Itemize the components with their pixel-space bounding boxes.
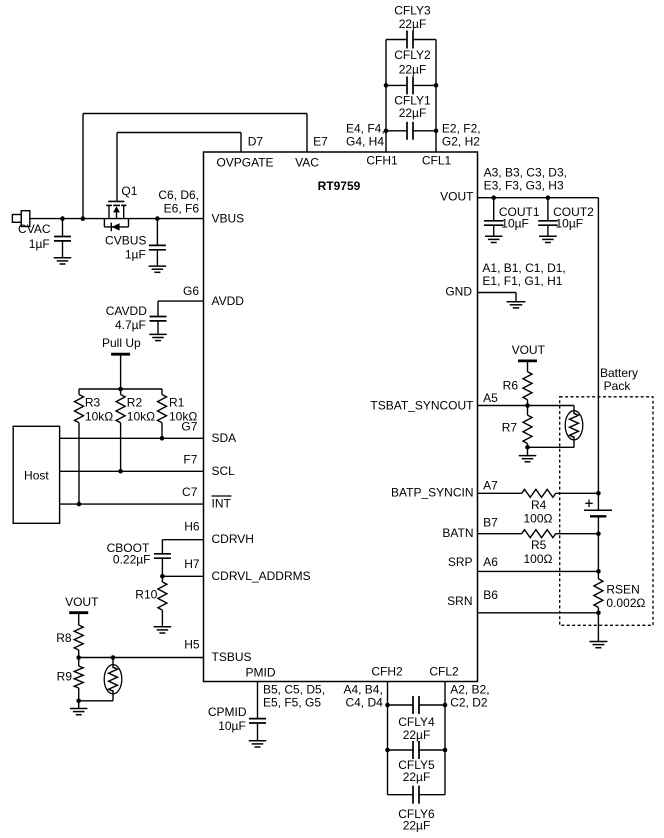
svg-text:B7: B7 bbox=[483, 516, 498, 530]
svg-text:22µF: 22µF bbox=[399, 17, 427, 31]
ground below GND pin bbox=[507, 302, 526, 308]
capacitor CFLY4 bbox=[388, 696, 446, 742]
pin number B6 bbox=[483, 588, 498, 602]
svg-text:CVAC: CVAC bbox=[18, 222, 51, 236]
pin number A3 B3 C3 D3 E3 F3 G3 H3 bbox=[484, 166, 567, 193]
node BATN bus junction bbox=[596, 531, 601, 536]
svg-text:E7: E7 bbox=[313, 135, 328, 149]
wire PMID bbox=[257, 682, 259, 719]
pin number C7 bbox=[182, 485, 198, 499]
svg-text:4.7µF: 4.7µF bbox=[115, 318, 146, 332]
pin label CFH2 bbox=[371, 665, 403, 679]
svg-text:CDRVH: CDRVH bbox=[212, 532, 254, 546]
svg-text:D7: D7 bbox=[248, 135, 264, 149]
pin label VOUT bbox=[440, 190, 474, 204]
svg-text:C2, D2: C2, D2 bbox=[450, 696, 488, 710]
svg-text:VAC: VAC bbox=[295, 156, 319, 170]
node CFLY4 junctions bbox=[385, 703, 447, 708]
svg-text:CFLY3: CFLY3 bbox=[394, 4, 431, 18]
connector VAC input plug bbox=[12, 211, 29, 227]
svg-text:PMID: PMID bbox=[246, 666, 276, 680]
pin number A1 B1 C1 D1 E1 F1 G1 H1 bbox=[482, 261, 565, 288]
capacitor COUT1 bbox=[484, 198, 540, 237]
capacitor CFLY5 bbox=[388, 741, 446, 784]
ground below R7 bbox=[519, 456, 537, 462]
svg-text:CAVDD: CAVDD bbox=[106, 304, 147, 318]
svg-text:10µF: 10µF bbox=[556, 216, 584, 230]
svg-text:1µF: 1µF bbox=[29, 237, 50, 251]
svg-text:A3, B3, C3, D3,: A3, B3, C3, D3, bbox=[484, 166, 567, 180]
pin label TSBAT_SYNCOUT bbox=[370, 398, 474, 412]
wire Q1 gate to OVPGATE (inner) bbox=[117, 133, 241, 201]
svg-text:B6: B6 bbox=[483, 588, 498, 602]
svg-text:BATP_SYNCIN: BATP_SYNCIN bbox=[391, 486, 473, 500]
capacitor COUT2 bbox=[538, 198, 594, 237]
resistor R1 bbox=[158, 389, 198, 438]
svg-text:OVPGATE: OVPGATE bbox=[216, 156, 273, 170]
svg-text:C4, D4: C4, D4 bbox=[345, 696, 383, 710]
svg-text:10kΩ: 10kΩ bbox=[85, 409, 113, 423]
node CVAC junction bbox=[60, 216, 65, 221]
resistor R3 bbox=[75, 389, 114, 504]
capacitor CVBUS bbox=[105, 219, 166, 267]
svg-text:10kΩ: 10kΩ bbox=[127, 409, 155, 423]
svg-text:GND: GND bbox=[445, 285, 472, 299]
capacitor CAVDD bbox=[106, 304, 167, 335]
pin label CDRVL_ADDRMS bbox=[212, 569, 311, 583]
wire CDRVH bbox=[162, 540, 203, 554]
svg-text:SDA: SDA bbox=[212, 431, 237, 445]
ground below CAVDD bbox=[149, 334, 167, 340]
resistor R10 bbox=[135, 576, 167, 627]
wire CFL2 rail bbox=[444, 682, 446, 795]
node CFLY1 junctions bbox=[384, 129, 439, 134]
capacitor CVAC bbox=[18, 219, 71, 258]
pin number G6 bbox=[183, 284, 199, 298]
svg-text:R5: R5 bbox=[531, 538, 547, 552]
svg-text:CFL2: CFL2 bbox=[429, 665, 459, 679]
wire BATN with resistor R5 bbox=[478, 530, 599, 566]
svg-text:R9: R9 bbox=[57, 670, 73, 684]
wire SDA bbox=[60, 436, 204, 441]
svg-text:22µF: 22µF bbox=[399, 63, 427, 77]
svg-text:RT9759: RT9759 bbox=[318, 179, 361, 193]
host block bbox=[13, 426, 59, 523]
svg-text:100Ω: 100Ω bbox=[524, 512, 553, 526]
pin label GND bbox=[445, 285, 472, 299]
svg-text:C6, D6,: C6, D6, bbox=[158, 188, 199, 202]
pin number E4 F4 G4 H4 bbox=[346, 121, 385, 148]
wire VBUS to VAC (outer) bbox=[83, 114, 307, 219]
svg-text:Host: Host bbox=[24, 469, 49, 483]
svg-text:R7: R7 bbox=[502, 421, 518, 435]
ground below CPMID bbox=[249, 741, 267, 747]
node CFLY5 junctions bbox=[385, 748, 447, 753]
pin label TSBUS bbox=[212, 650, 252, 664]
wire VOUT rail bbox=[478, 195, 599, 200]
wire battery bus lower bbox=[597, 516, 599, 571]
svg-text:VOUT: VOUT bbox=[512, 343, 546, 357]
pin label SRP bbox=[448, 555, 473, 569]
svg-text:R4: R4 bbox=[531, 498, 547, 512]
svg-text:H5: H5 bbox=[184, 638, 200, 652]
svg-text:E5, F5, G5: E5, F5, G5 bbox=[263, 696, 321, 710]
svg-text:R2: R2 bbox=[127, 396, 143, 410]
pin label SCL bbox=[212, 464, 236, 478]
svg-text:TSBAT_SYNCOUT: TSBAT_SYNCOUT bbox=[370, 398, 474, 412]
pin number H5 bbox=[184, 638, 200, 652]
svg-text:R8: R8 bbox=[56, 631, 72, 645]
node VAC junction bbox=[81, 216, 86, 221]
node SRN bus junction bbox=[596, 611, 601, 616]
svg-text:BATN: BATN bbox=[442, 526, 473, 540]
wire INT bbox=[60, 502, 204, 507]
svg-text:A4, B4,: A4, B4, bbox=[343, 683, 382, 697]
svg-text:INT: INT bbox=[212, 497, 232, 511]
svg-text:H6: H6 bbox=[184, 520, 200, 534]
battery pack boundary bbox=[560, 366, 653, 625]
capacitor CFLY2 bbox=[386, 48, 436, 94]
pin label CDRVH bbox=[212, 532, 254, 546]
svg-text:R1: R1 bbox=[169, 396, 185, 410]
svg-text:E4, F4,: E4, F4, bbox=[346, 121, 385, 135]
svg-text:A2, B2,: A2, B2, bbox=[450, 683, 489, 697]
svg-text:22µF: 22µF bbox=[403, 728, 431, 742]
svg-text:F7: F7 bbox=[183, 452, 197, 466]
node R7 bottom junction bbox=[525, 445, 530, 450]
capacitor CFLY6 bbox=[388, 786, 446, 833]
svg-text:0.22µF: 0.22µF bbox=[113, 553, 151, 567]
resistor R8 bbox=[56, 625, 83, 658]
svg-text:CFH1: CFH1 bbox=[366, 154, 398, 168]
thermistor TH1 bbox=[76, 658, 121, 704]
svg-text:E1, F1, G1, H1: E1, F1, G1, H1 bbox=[482, 274, 562, 288]
svg-text:G2, H2: G2, H2 bbox=[442, 134, 480, 148]
svg-text:SRN: SRN bbox=[447, 594, 472, 608]
svg-text:A1, B1, C1, D1,: A1, B1, C1, D1, bbox=[482, 261, 565, 275]
capacitor CFLY3 bbox=[386, 4, 436, 49]
svg-text:G4, H4: G4, H4 bbox=[346, 134, 384, 148]
svg-text:A7: A7 bbox=[483, 479, 498, 493]
svg-text:10µF: 10µF bbox=[501, 216, 529, 230]
pin number F7 bbox=[183, 452, 197, 466]
ground below COUT2 bbox=[539, 236, 557, 242]
capacitor CPMID bbox=[208, 705, 266, 741]
svg-text:1µF: 1µF bbox=[125, 247, 146, 261]
pin label VBUS bbox=[212, 212, 245, 226]
node VOUT supply right bbox=[512, 343, 546, 372]
resistor R9 bbox=[57, 658, 84, 701]
wire CDRVL_ADDRMS bbox=[160, 574, 203, 579]
pin number A5 bbox=[483, 391, 498, 405]
pin label SRN bbox=[447, 594, 472, 608]
resistor RSEN bbox=[594, 571, 646, 612]
svg-text:10µF: 10µF bbox=[218, 719, 246, 733]
wire SCL bbox=[60, 469, 204, 474]
wire bus to ground bbox=[597, 613, 599, 642]
svg-text:100Ω: 100Ω bbox=[524, 552, 553, 566]
node A7 bus junction bbox=[596, 491, 601, 496]
ground below battery bus bbox=[589, 642, 607, 648]
wire TSBUS bbox=[76, 655, 203, 660]
wire battery bus upper bbox=[597, 198, 599, 511]
node CVBUS junction bbox=[155, 216, 160, 221]
svg-text:Q1: Q1 bbox=[121, 184, 137, 198]
wire AVDD bbox=[158, 301, 204, 316]
wire R7 ground stem bbox=[527, 447, 529, 455]
wire CFL1 rail bbox=[435, 40, 437, 153]
svg-text:CVBUS: CVBUS bbox=[105, 234, 146, 248]
wire R9 ground stem bbox=[78, 701, 80, 709]
svg-text:Pull Up: Pull Up bbox=[102, 336, 141, 350]
node SRP bus junction bbox=[596, 569, 601, 574]
svg-text:22µF: 22µF bbox=[403, 770, 431, 784]
svg-text:SCL: SCL bbox=[212, 464, 236, 478]
pin label BATP_SYNCIN bbox=[391, 486, 473, 500]
node VOUT supply left bbox=[65, 595, 99, 625]
svg-text:10kΩ: 10kΩ bbox=[169, 409, 197, 423]
wire CFH1 rail bbox=[385, 40, 387, 153]
svg-text:R3: R3 bbox=[85, 396, 101, 410]
svg-text:Pack: Pack bbox=[604, 379, 632, 393]
pin number E7 bbox=[313, 135, 328, 149]
svg-text:CDRVL_ADDRMS: CDRVL_ADDRMS bbox=[212, 569, 311, 583]
svg-text:H7: H7 bbox=[184, 557, 200, 571]
svg-text:Battery: Battery bbox=[600, 366, 638, 380]
wire BATP_SYNCIN with resistor R4 bbox=[478, 489, 599, 525]
pin number H6 bbox=[184, 520, 200, 534]
svg-text:A6: A6 bbox=[483, 555, 498, 569]
node Pull Up supply bbox=[102, 336, 141, 389]
svg-text:CFH2: CFH2 bbox=[371, 665, 403, 679]
pin number H7 bbox=[184, 557, 200, 571]
svg-text:VOUT: VOUT bbox=[65, 595, 99, 609]
svg-text:R10: R10 bbox=[135, 588, 157, 602]
op-amp U1 RT9759 chip body bbox=[204, 152, 478, 682]
svg-text:AVDD: AVDD bbox=[212, 294, 245, 308]
pin label PMID bbox=[246, 666, 276, 680]
ground below CVAC bbox=[54, 258, 72, 264]
svg-text:22µF: 22µF bbox=[403, 819, 431, 833]
transistor Q1 bbox=[104, 184, 137, 231]
resistor R6 bbox=[503, 372, 532, 406]
pin label CFL1 bbox=[422, 154, 452, 168]
svg-text:RSEN: RSEN bbox=[606, 583, 639, 597]
pin label SDA bbox=[212, 431, 237, 445]
svg-text:B5, C5, D5,: B5, C5, D5, bbox=[263, 683, 325, 697]
resistor R2 bbox=[116, 389, 155, 471]
pin label BATN bbox=[442, 526, 473, 540]
wire TSBAT_SYNCOUT bbox=[478, 403, 530, 408]
pin number A2 B2 C2 D2 bbox=[450, 683, 489, 710]
svg-text:CFL1: CFL1 bbox=[422, 154, 452, 168]
svg-text:0.002Ω: 0.002Ω bbox=[606, 596, 645, 610]
svg-text:SRP: SRP bbox=[448, 555, 473, 569]
node CFLY2 junctions bbox=[384, 83, 439, 88]
wire SRN bbox=[478, 612, 599, 614]
battery BT1 bbox=[584, 500, 612, 517]
pin number A7 bbox=[483, 479, 498, 493]
svg-text:C7: C7 bbox=[182, 485, 198, 499]
pin label AVDD bbox=[212, 294, 245, 308]
pin number D7 bbox=[248, 135, 264, 149]
capacitor CFLY1 bbox=[386, 94, 436, 140]
wire GND bbox=[478, 293, 517, 302]
pin number A6 bbox=[483, 555, 498, 569]
svg-text:A5: A5 bbox=[483, 391, 498, 405]
wire CFH2 rail bbox=[387, 682, 389, 795]
svg-text:VOUT: VOUT bbox=[440, 190, 474, 204]
pin label VAC bbox=[295, 156, 319, 170]
wire pull-up rail bbox=[79, 387, 162, 392]
pin label INT with overline bbox=[212, 496, 232, 511]
svg-text:R6: R6 bbox=[503, 379, 519, 393]
svg-text:E6, F6: E6, F6 bbox=[164, 201, 200, 215]
ground below COUT1 bbox=[485, 236, 503, 242]
pin label CFH1 bbox=[366, 154, 398, 168]
pin number B5 C5 D5 E5 F5 G5 bbox=[263, 683, 325, 710]
svg-text:VBUS: VBUS bbox=[212, 212, 245, 226]
pin number A4 B4 C4 D4 bbox=[343, 683, 383, 710]
svg-text:E3, F3, G3, H3: E3, F3, G3, H3 bbox=[484, 179, 564, 193]
wire A5 to thermistor bbox=[528, 406, 575, 415]
wire VBUS rail bbox=[30, 218, 204, 220]
pin label CFL2 bbox=[429, 665, 459, 679]
svg-text:G6: G6 bbox=[183, 284, 199, 298]
svg-text:CPMID: CPMID bbox=[208, 705, 247, 719]
wire SRP bbox=[478, 570, 599, 572]
pin number B7 bbox=[483, 516, 498, 530]
pin label OVPGATE bbox=[216, 156, 273, 170]
capacitor CBOOT bbox=[107, 541, 171, 576]
pin number C6 D6 E6 F6 bbox=[158, 188, 199, 215]
svg-text:TSBUS: TSBUS bbox=[212, 650, 252, 664]
thermistor TH2 in battery pack bbox=[528, 411, 583, 448]
resistor R7 bbox=[502, 406, 532, 448]
pin number E2 F2 G2 H2 bbox=[442, 121, 481, 148]
ground below R9 bbox=[70, 709, 88, 715]
pin number G7 bbox=[181, 419, 197, 433]
svg-text:CFLY2: CFLY2 bbox=[394, 48, 431, 62]
svg-text:22µF: 22µF bbox=[399, 106, 427, 120]
ground below CVBUS bbox=[149, 266, 167, 272]
ground below R10 bbox=[154, 627, 172, 633]
svg-text:E2, F2,: E2, F2, bbox=[442, 121, 481, 135]
